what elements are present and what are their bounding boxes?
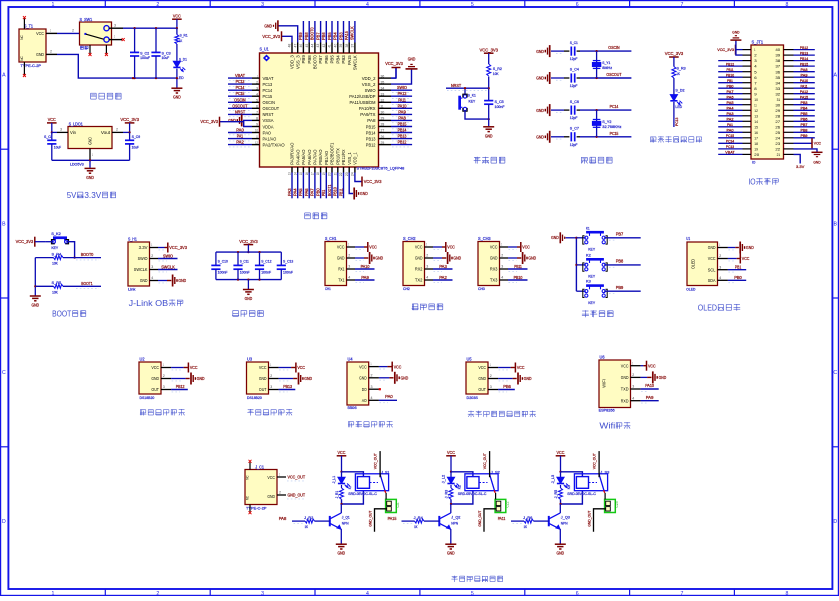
svg-text:29: 29 [775, 108, 781, 113]
svg-text:GND: GND [151, 376, 159, 381]
svg-text:3: 3 [163, 385, 165, 389]
svg-text:GND: GND [401, 376, 409, 381]
svg-text:3: 3 [261, 2, 264, 8]
svg-text:32.768KHz: 32.768KHz [602, 125, 621, 129]
wire relay1 top to coil [342, 472, 364, 477]
LED S_D1 [173, 57, 187, 87]
svg-text:RX1: RX1 [338, 267, 345, 272]
svg-text:2: 2 [632, 373, 634, 377]
svg-text:2: 2 [116, 127, 118, 131]
svg-text:IO: IO [752, 161, 755, 165]
mcu right pin 33 net PA12 [349, 91, 412, 99]
svg-text:28: 28 [381, 123, 385, 127]
terminal block CZ3 [605, 499, 619, 512]
svg-text:PB14: PB14 [800, 56, 809, 61]
svg-text:NPN: NPN [342, 521, 349, 525]
mcu top pin 45 net PB8 [304, 21, 312, 64]
svg-text:100nF: 100nF [495, 105, 506, 109]
svg-text:K1: K1 [586, 225, 590, 230]
svg-text:3: 3 [371, 385, 373, 389]
wire relay2 coil bottom [450, 491, 473, 505]
svg-text:S_R3: S_R3 [677, 66, 686, 70]
wire relay3 common VCC_OUT [593, 451, 599, 477]
button K3 (key) [576, 279, 640, 305]
svg-text:1: 1 [279, 472, 280, 476]
svg-text:19: 19 [754, 147, 758, 152]
svg-text:5: 5 [471, 2, 474, 8]
svg-text:VBAT: VBAT [263, 76, 274, 81]
svg-text:PA6: PA6 [304, 188, 309, 196]
svg-text:5506: 5506 [348, 406, 357, 410]
svg-text:S_CH1: S_CH1 [325, 236, 337, 241]
capacitor S_C9 [125, 132, 140, 160]
svg-text:PA5: PA5 [727, 100, 734, 105]
SW1 bottom stubs [89, 45, 108, 56]
svg-text:S_CH2: S_CH2 [403, 236, 416, 241]
relay J_S1 SRD-05VDC-SL-C [348, 471, 390, 496]
svg-text:PA8: PA8 [801, 67, 808, 72]
svg-text:PC15: PC15 [610, 131, 619, 136]
OLED pin1 GND [718, 242, 754, 254]
ground GND (ldo) [85, 160, 96, 180]
title 程序运行指示灯 [650, 136, 702, 142]
svg-text:PB15: PB15 [800, 61, 808, 66]
power flag VCC_3V3 (reset) [480, 47, 499, 64]
svg-text:VCC_3V3: VCC_3V3 [385, 61, 403, 66]
svg-text:VCC: VCC [337, 245, 345, 250]
svg-text:PA0: PA0 [727, 128, 735, 133]
svg-text:3: 3 [501, 265, 503, 269]
svg-text:4: 4 [256, 93, 258, 97]
svg-text:VCC_OUT: VCC_OUT [374, 453, 378, 470]
svg-text:CH1: CH1 [325, 287, 331, 291]
svg-text:PB4: PB4 [333, 32, 338, 40]
svg-text:3: 3 [261, 591, 264, 596]
svg-text:J_S3: J_S3 [600, 471, 609, 475]
svg-text:J_R4: J_R4 [414, 516, 423, 520]
header JT1 row 3 [718, 56, 815, 63]
wire terminal3 GND_OUT [587, 509, 605, 532]
mcu left pin 3 net PC14 [228, 85, 273, 93]
svg-text:OSCOUT: OSCOUT [232, 103, 247, 108]
wire relay1 NO to terminal [385, 493, 387, 500]
svg-text:J_R2: J_R2 [304, 516, 313, 520]
svg-text:VCC_OUT: VCC_OUT [288, 475, 306, 480]
svg-text:VCC: VCC [267, 475, 275, 480]
svg-text:PA9: PA9 [646, 395, 654, 400]
svg-text:PB11: PB11 [514, 264, 522, 269]
svg-text:2: 2 [156, 2, 159, 8]
svg-text:VSS_2: VSS_2 [362, 82, 376, 87]
svg-text:PB14: PB14 [366, 130, 376, 135]
svg-text:VCC_OUT: VCC_OUT [483, 453, 487, 470]
header JT1 row 10 [718, 94, 815, 101]
svg-text:U6: U6 [600, 355, 606, 360]
ground GND (relay 2) [445, 544, 456, 556]
header JT1 row 18 [718, 138, 821, 148]
svg-text:24: 24 [351, 172, 355, 176]
title 按键电路 [582, 310, 613, 317]
svg-text:10uF: 10uF [132, 146, 140, 150]
svg-text:OSCIN: OSCIN [608, 45, 619, 50]
svg-text:U5: U5 [467, 356, 473, 361]
title 主芯片 [305, 213, 327, 219]
svg-text:GND: GND [304, 376, 312, 381]
svg-text:PA1/AO: PA1/AO [263, 136, 277, 141]
svg-text:OUT: OUT [151, 387, 159, 392]
capacitor S_C5 [484, 100, 505, 127]
mcu left pin 5 net OSCIN [228, 97, 275, 105]
svg-text:VBAT: VBAT [725, 150, 735, 155]
svg-text:OLED: OLED [698, 303, 717, 312]
svg-text:TYPE-C-2P: TYPE-C-2P [21, 64, 42, 68]
svg-text:PB7: PB7 [616, 231, 624, 236]
svg-text:21: 21 [333, 172, 337, 175]
svg-text:1: 1 [163, 363, 164, 367]
svg-text:PB13: PB13 [800, 50, 808, 55]
mcu right pin 32 net PA11 [350, 97, 413, 105]
power flag VCC_3V3 (boot) [16, 237, 45, 247]
svg-text:PB6: PB6 [321, 32, 326, 40]
mcu top pin 37 net SWCLK [350, 21, 358, 70]
svg-text:J_C1: J_C1 [255, 464, 264, 469]
svg-text:NRST: NRST [235, 109, 245, 114]
terminal block CZ2 [495, 499, 509, 512]
svg-text:S_C11: S_C11 [240, 259, 249, 263]
header JT1 row 14 [718, 117, 815, 124]
svg-text:VCC: VCC [338, 450, 346, 455]
svg-text:J_Q1: J_Q1 [342, 516, 350, 520]
svg-text:VCC: VCC [490, 245, 498, 250]
svg-text:4: 4 [501, 276, 503, 280]
svg-text:D: D [2, 519, 6, 525]
svg-text:PB15: PB15 [398, 122, 407, 127]
button S_K2 [45, 231, 69, 250]
svg-text:PB12: PB12 [800, 45, 808, 50]
svg-text:PA4: PA4 [727, 106, 735, 111]
svg-text:VDD_2: VDD_2 [362, 76, 376, 81]
svg-text:PB15: PB15 [366, 124, 376, 129]
title 串口电路 [412, 304, 443, 311]
svg-text:PC13: PC13 [263, 82, 273, 87]
svg-text:31: 31 [381, 105, 384, 109]
svg-text:BOOT0: BOOT0 [313, 55, 318, 69]
mcu top pin 46 net PB9 [298, 21, 306, 64]
svg-text:GND: GND [551, 235, 559, 240]
power flag VCC_3V3 (filter) [239, 239, 258, 253]
svg-text:VCC_3V3: VCC_3V3 [239, 239, 258, 244]
svg-text:16: 16 [754, 130, 758, 135]
power flag VCC (relay 1) [337, 450, 347, 473]
svg-text:31: 31 [777, 97, 781, 102]
svg-text:GND: GND [140, 278, 148, 283]
button K1 (key) [576, 225, 640, 251]
transistor J_Q2 NPN [439, 504, 460, 544]
display U1 OLED [686, 236, 717, 291]
svg-text:3: 3 [151, 265, 153, 269]
svg-text:CZ3: CZ3 [615, 501, 619, 507]
svg-text:GND: GND [338, 551, 346, 556]
svg-text:2: 2 [348, 254, 350, 258]
title 复位电路 [474, 157, 505, 164]
svg-text:1: 1 [51, 591, 54, 596]
svg-text:PC15: PC15 [726, 133, 734, 138]
svg-text:U1: U1 [686, 236, 690, 241]
svg-text:S_C5: S_C5 [495, 100, 504, 104]
svg-text:VCC: VCC [648, 363, 656, 368]
ground GND (keys) [551, 232, 576, 243]
svg-text:S_U1: S_U1 [260, 47, 270, 52]
svg-text:VCC: VCC [814, 141, 821, 146]
svg-text:38: 38 [775, 58, 781, 63]
svg-text:4: 4 [151, 276, 153, 280]
svg-text:GND: GND [264, 23, 272, 28]
svg-text:PB0: PB0 [315, 188, 320, 196]
svg-text:STM32F103C8T6_LQFP48: STM32F103C8T6_LQFP48 [357, 166, 406, 171]
OLED pin4 SDA net PB0 [718, 275, 747, 283]
wire filter bottom rail [216, 278, 281, 280]
svg-text:PA12: PA12 [800, 89, 808, 94]
mcu top pin 38 net PA15 [344, 21, 352, 65]
svg-text:34: 34 [775, 80, 781, 85]
svg-text:J_Q2: J_Q2 [451, 516, 460, 520]
svg-text:7: 7 [681, 591, 684, 596]
svg-text:VCC_3V3: VCC_3V3 [480, 47, 499, 52]
svg-text:J_R1: J_R1 [335, 491, 339, 499]
mcu left pin 8 VSSA ground [228, 114, 274, 126]
svg-text:PB13: PB13 [366, 136, 376, 141]
svg-text:PB11: PB11 [727, 67, 734, 72]
wire relay3 coil bottom [559, 491, 582, 505]
svg-text:OUT: OUT [259, 387, 267, 392]
svg-text:PA4/AO: PA4/AO [295, 149, 300, 165]
svg-text:GND: GND [259, 376, 267, 381]
header S_H1 J-Link [128, 236, 188, 291]
mcu right pin 29 net PA8 [367, 115, 412, 123]
svg-text:VCC: VCC [415, 245, 423, 250]
svg-text:VDDA: VDDA [263, 124, 275, 129]
power flag VCC [172, 13, 182, 29]
svg-text:ESP8266: ESP8266 [599, 409, 615, 413]
svg-text:12pF: 12pF [570, 143, 578, 147]
svg-text:VCC: VCC [190, 365, 198, 370]
svg-text:14: 14 [293, 172, 297, 175]
svg-text:S_R1: S_R1 [180, 34, 188, 38]
svg-text:GND: GND [408, 56, 416, 61]
svg-text:PA11: PA11 [498, 516, 506, 521]
svg-text:J_S2: J_S2 [491, 471, 500, 475]
svg-text:41: 41 [328, 44, 332, 47]
svg-text:38: 38 [345, 43, 349, 47]
svg-text:BOOT0: BOOT0 [310, 27, 315, 40]
LED J_L3 [551, 472, 569, 488]
svg-text:GND: GND [536, 49, 544, 54]
header JT1 row 17 [718, 133, 815, 140]
svg-text:GND: GND [536, 108, 544, 113]
title 电源电路 [91, 93, 122, 99]
svg-text:17: 17 [311, 172, 315, 175]
svg-text:S_CH3: S_CH3 [478, 236, 491, 241]
svg-text:PB5: PB5 [327, 32, 332, 40]
button K2 (key) [576, 252, 640, 278]
svg-text:PA11/USB/DM: PA11/USB/DM [350, 100, 376, 105]
svg-text:10K: 10K [493, 72, 499, 76]
svg-text:PC15: PC15 [263, 94, 273, 99]
svg-text:1K: 1K [179, 39, 183, 43]
svg-text:TXD: TXD [621, 387, 629, 392]
SW1 pin 3 stub [109, 23, 123, 28]
header JT1 row 8 [718, 83, 815, 90]
svg-text:PC14: PC14 [610, 104, 619, 109]
svg-text:S_R5: S_R5 [52, 280, 62, 285]
svg-text:D: D [833, 519, 837, 525]
header S_CH3 uart3 [478, 236, 536, 291]
svg-text:1: 1 [257, 74, 258, 78]
svg-text:5: 5 [471, 591, 474, 596]
power flag VCC (ldo) [47, 117, 57, 133]
svg-text:Vout: Vout [101, 130, 111, 135]
module U6 WiFi ESP8266 [599, 355, 667, 413]
svg-text:PA4: PA4 [293, 188, 298, 196]
header JT1 row 19 [718, 144, 822, 164]
svg-text:18: 18 [316, 172, 320, 175]
svg-text:45: 45 [305, 43, 309, 47]
mcu right pin 27 net PB14 [366, 128, 412, 136]
svg-text:32: 32 [381, 99, 385, 103]
title 晶振电路 [582, 157, 613, 164]
svg-text:34: 34 [381, 86, 385, 90]
mcu left pin 1 net VBAT [228, 73, 274, 81]
resistor J_R3 [444, 485, 453, 499]
LDO gnd pin [90, 149, 93, 161]
svg-text:44: 44 [311, 43, 315, 47]
ground GND (boot) [30, 296, 41, 308]
svg-text:26: 26 [381, 135, 385, 139]
svg-text:35: 35 [381, 80, 385, 84]
net PC13 (indicator) [674, 102, 679, 127]
ground GND (relay 1) [336, 544, 347, 556]
svg-text:PA5: PA5 [298, 188, 303, 196]
svg-text:2: 2 [151, 254, 153, 258]
svg-text:48: 48 [288, 43, 292, 47]
power flag VCC_3V3 (indicator) [665, 51, 684, 66]
svg-text:LED: LED [675, 105, 682, 109]
svg-text:3: 3 [632, 385, 634, 389]
svg-text:K2: K2 [586, 252, 592, 257]
svg-text:22: 22 [775, 147, 781, 152]
svg-text:PA1: PA1 [727, 122, 733, 127]
svg-text:2: 2 [490, 374, 492, 378]
svg-text:VCC: VCC [557, 450, 565, 455]
svg-text:PA11: PA11 [801, 83, 808, 88]
svg-text:2: 2 [279, 490, 281, 494]
svg-text:VCC: VCC [478, 365, 486, 370]
mcu bottom pin 23 VSS_1 ground [345, 152, 368, 200]
svg-text:PC14: PC14 [236, 85, 245, 90]
svg-text:2: 2 [50, 50, 52, 54]
capacitor S_C3 [151, 28, 170, 78]
transistor J_Q1 NPN [330, 504, 350, 544]
mcu bottom pin 16 net PA6 [304, 149, 312, 198]
svg-text:PB12: PB12 [726, 61, 734, 66]
svg-text:PA0: PA0 [263, 130, 272, 135]
svg-text:VCC_3V3: VCC_3V3 [16, 239, 34, 244]
capacitor S_C6 row PC14 [536, 100, 631, 120]
svg-text:6: 6 [576, 2, 579, 8]
capacitor S_C2 [130, 28, 151, 78]
svg-text:GND: GND [178, 278, 186, 283]
title 5V转3.3V电路 [67, 191, 116, 200]
header JT1 row 6 [718, 72, 815, 79]
svg-text:VCC: VCC [297, 365, 305, 370]
resistor S_R3 [672, 66, 686, 78]
svg-text:24: 24 [775, 135, 781, 140]
svg-text:20: 20 [328, 172, 332, 176]
svg-text:C: C [833, 370, 837, 376]
title 继电器控制电路 [451, 576, 502, 582]
svg-text:BOOT0: BOOT0 [81, 252, 94, 257]
header JT1 row 16 [718, 128, 815, 135]
svg-text:18: 18 [754, 141, 758, 146]
title 湿度检测模块 [247, 409, 292, 416]
mcu bottom pin 19 net PB1 [321, 151, 329, 199]
svg-text:PB0: PB0 [734, 275, 742, 280]
svg-text:S_C8: S_C8 [44, 135, 53, 139]
svg-text:47: 47 [293, 43, 297, 47]
svg-text:BOOT1: BOOT1 [81, 281, 93, 286]
svg-text:S_R4: S_R4 [52, 251, 62, 256]
svg-text:PA10: PA10 [800, 78, 809, 83]
svg-text:PA12: PA12 [398, 91, 407, 96]
power flag VCC (relay 2) [446, 450, 456, 473]
header JT1 row 20 [718, 150, 805, 169]
svg-text:NC: NC [20, 35, 24, 40]
svg-text:1: 1 [719, 243, 720, 247]
svg-text:1: 1 [114, 35, 115, 39]
svg-text:J_Q3: J_Q3 [561, 516, 570, 520]
mcu right pin 36 VDD_2 VCC_3V3 [362, 61, 404, 81]
svg-text:GND: GND [732, 29, 739, 34]
svg-text:22: 22 [339, 172, 343, 176]
svg-text:K2: K2 [457, 485, 461, 489]
mcu left pin 4 net PC15 [228, 91, 273, 99]
svg-text:SDA: SDA [708, 278, 716, 283]
svg-text:PB3: PB3 [801, 100, 808, 105]
svg-text:TX3: TX3 [490, 278, 498, 283]
svg-text:40: 40 [333, 43, 337, 47]
svg-text:PA8: PA8 [367, 118, 376, 123]
svg-text:NC: NC [246, 496, 250, 501]
svg-text:U4: U4 [348, 356, 354, 361]
svg-text:S_C12: S_C12 [261, 259, 271, 263]
svg-text:VDD_3: VDD_3 [290, 55, 295, 69]
svg-text:4: 4 [426, 276, 428, 280]
mcu right pin 28 net PB15 [366, 122, 412, 130]
capacitor S_C13 100nF [277, 252, 294, 280]
svg-text:GND: GND [813, 160, 820, 165]
resistor J_R5 [554, 485, 563, 499]
svg-text:37: 37 [775, 64, 781, 69]
svg-text:17: 17 [754, 135, 758, 140]
svg-text:VCC: VCC [369, 245, 377, 250]
svg-text:25: 25 [775, 130, 781, 135]
svg-text:4: 4 [719, 276, 721, 280]
svg-text:PB1/AO: PB1/AO [324, 151, 329, 165]
svg-text:1: 1 [50, 29, 51, 33]
svg-text:1: 1 [348, 243, 349, 247]
svg-text:J_L2: J_L2 [442, 475, 446, 484]
svg-text:PB12: PB12 [176, 384, 185, 389]
